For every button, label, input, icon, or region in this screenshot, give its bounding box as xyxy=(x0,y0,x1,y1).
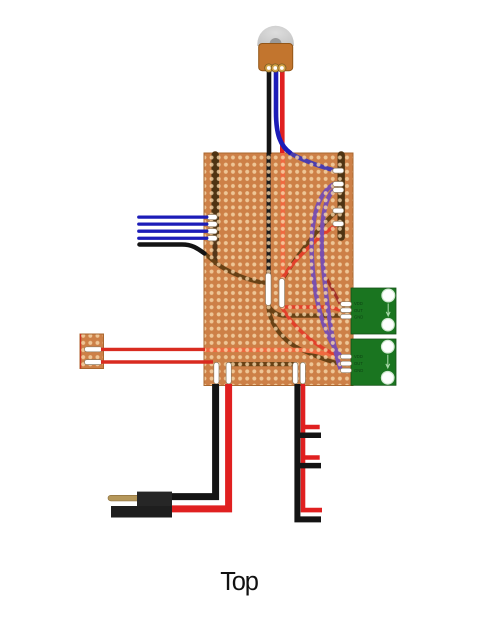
wire black stub 2 xyxy=(297,463,321,469)
svg-text:VDD: VDD xyxy=(354,354,363,359)
wire red (right H5 to H2) xyxy=(283,224,339,279)
svg-text:GND: GND xyxy=(354,315,363,320)
PCB1 pads xyxy=(341,302,352,319)
svg-text:OUT: OUT xyxy=(354,308,363,313)
trace salmon vertical (PIR VCC) xyxy=(280,153,285,278)
wire red stub 1 xyxy=(303,425,320,430)
svg-text:OUT: OUT xyxy=(354,361,363,366)
bus strip right xyxy=(338,155,345,237)
green PCB module 1 xyxy=(351,288,396,334)
bottom headers xyxy=(214,362,306,384)
wire brown B4 (H1 to PCB2 pad2) xyxy=(268,306,340,364)
red wires from small board xyxy=(101,348,205,351)
PIR sensor xyxy=(257,26,294,72)
bottom right red wire xyxy=(303,384,322,510)
wire brown B1 (right H4 to H2) xyxy=(284,211,339,278)
left headers (4) xyxy=(207,215,218,241)
wire purple P1 xyxy=(312,184,341,357)
svg-text:Top: Top xyxy=(220,568,259,596)
small board headers xyxy=(85,347,103,365)
wire red stub 2 xyxy=(303,455,320,460)
bottom left red wire xyxy=(168,384,229,509)
bottom left black wire xyxy=(171,384,216,497)
wire dark red to PCB1 pad1 xyxy=(327,279,340,304)
trace brown B5 bottom row xyxy=(229,362,296,366)
wire black stub 1 xyxy=(297,433,321,439)
bottom right black wire xyxy=(297,384,321,519)
bus strip left xyxy=(211,155,219,240)
wire brown B3 (H1 to PCB1 pad3) xyxy=(268,306,340,316)
battery connector xyxy=(108,492,172,518)
hole grid small board xyxy=(81,335,104,369)
wire brown B2 on-board (left black wire to H1) xyxy=(204,253,266,283)
svg-text:VDD: VDD xyxy=(354,301,363,306)
perfboard small (left) xyxy=(80,334,104,369)
middle headers H1 H2 xyxy=(266,273,285,308)
perfboard main xyxy=(204,153,353,386)
PCB2 pads xyxy=(341,354,352,372)
wire red H2 to PCB1 pad2 xyxy=(284,307,340,310)
right headers (5) xyxy=(333,168,344,226)
green PCB module 2 xyxy=(351,339,396,385)
trace blue on-board (PIR OUT to right header) xyxy=(289,153,335,171)
wire purple P2 xyxy=(322,190,341,370)
wire red H2 to PCB2 pad1 xyxy=(282,308,340,357)
trace red row from small board xyxy=(204,350,340,357)
svg-text:GND: GND xyxy=(354,368,363,373)
blue ribbon wires xyxy=(139,217,207,238)
hole grid main board xyxy=(205,154,353,386)
black wire left (5th of ribbon) xyxy=(139,245,204,254)
trace black vertical (PIR GND) xyxy=(267,153,271,274)
PIR wires xyxy=(267,66,272,154)
